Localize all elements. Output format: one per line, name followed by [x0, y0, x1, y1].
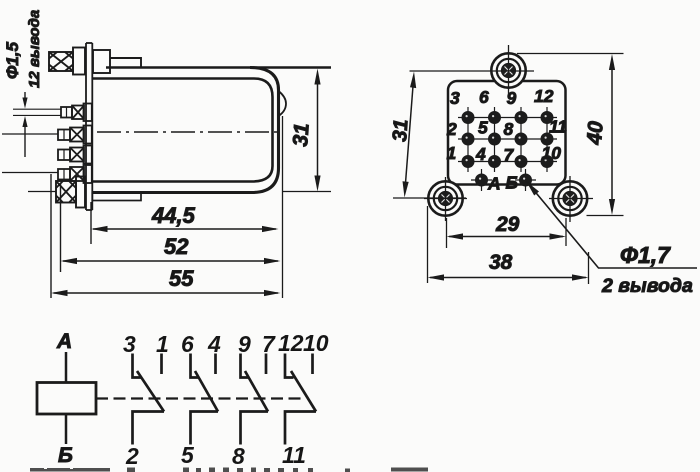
dimension 31 (left view, right side)	[283, 69, 331, 192]
callout arrow upper	[22, 92, 27, 109]
svg-text:31: 31	[389, 119, 412, 143]
dimension 44,5	[91, 203, 279, 232]
svg-text:6: 6	[479, 87, 489, 107]
extension for 44.5 left	[90, 202, 92, 244]
svg-text:52: 52	[164, 234, 189, 259]
coil	[37, 383, 96, 415]
svg-text:3: 3	[450, 88, 460, 108]
svg-text:2: 2	[125, 443, 139, 469]
dimension 52	[61, 234, 281, 264]
boss center tick marks	[424, 45, 593, 222]
extension for 55 left	[50, 174, 52, 298]
svg-text:6: 6	[181, 331, 194, 357]
svg-text:1: 1	[447, 143, 457, 163]
pin row 1	[61, 104, 92, 122]
relay body outer outline (side view)	[92, 68, 331, 193]
svg-text:9: 9	[507, 88, 517, 108]
coil terminal lead A	[65, 352, 68, 383]
vertical extension line at can rim	[282, 116, 284, 298]
leader line to coil pins	[527, 182, 697, 268]
contact group 4 : terminals 12-10-11	[278, 330, 329, 468]
extension for 52 left	[60, 183, 62, 272]
svg-text:5: 5	[181, 442, 195, 468]
mounting boss bottom-left	[428, 181, 462, 215]
mechanical link dashed line	[96, 397, 303, 399]
svg-text:Ф1,5: Ф1,5	[3, 42, 22, 79]
dimension 55	[51, 266, 281, 296]
relay body inner line (side view)	[92, 79, 273, 182]
cut-off caption remnants at bottom edge	[30, 467, 428, 472]
mounting boss top	[491, 53, 525, 87]
svg-text:9: 9	[238, 331, 251, 357]
dash-dot center axis line	[97, 131, 283, 133]
pin highlights	[466, 115, 547, 180]
svg-text:Ф1,7: Ф1,7	[620, 242, 671, 268]
svg-text:7: 7	[262, 331, 276, 357]
svg-text:29: 29	[495, 213, 520, 236]
contact group 3 : terminals 9-7-8	[232, 331, 276, 469]
svg-text:Б: Б	[506, 173, 518, 193]
pin row 4	[58, 165, 92, 183]
coil terminal lead B	[65, 414, 68, 444]
svg-text:2: 2	[446, 119, 457, 139]
relay body outline (bottom view)	[448, 81, 566, 185]
mounting foot bracket	[92, 193, 141, 201]
seam bump on right edge	[279, 91, 287, 116]
dimension 40 (bottom view, right)	[517, 54, 624, 216]
svg-text:38: 38	[489, 251, 513, 274]
svg-text:А: А	[487, 174, 501, 194]
pin row 3	[58, 146, 92, 164]
body bottom edge left part	[92, 191, 252, 194]
dimension 38	[428, 206, 589, 284]
svg-text:10: 10	[303, 330, 329, 356]
axis line of pin row 4	[2, 172, 58, 174]
svg-text:40: 40	[583, 120, 608, 146]
svg-text:А: А	[56, 330, 72, 353]
leader arrowhead at pin B	[526, 181, 539, 196]
svg-text:4: 4	[207, 331, 221, 357]
svg-text:8: 8	[504, 119, 514, 139]
center axis extension to image edge (row2)	[2, 133, 58, 135]
contact group 1 : terminals 3-1-2	[123, 331, 169, 469]
top threaded stud	[49, 48, 141, 75]
pin field grid lines	[458, 107, 557, 191]
dimension 29	[447, 213, 567, 248]
svg-text:Б: Б	[58, 444, 73, 467]
svg-text:11: 11	[549, 117, 567, 137]
svg-text:12: 12	[278, 330, 304, 356]
svg-text:4: 4	[475, 144, 486, 164]
svg-text:1: 1	[156, 331, 169, 357]
svg-text:55: 55	[169, 266, 194, 291]
callout arrow lower	[22, 116, 27, 157]
svg-text:3: 3	[123, 331, 136, 357]
svg-text:5: 5	[478, 118, 488, 138]
bottom threaded stud	[28, 177, 85, 208]
pin row 2	[58, 126, 92, 144]
contact pins (12) bottom view	[463, 112, 552, 166]
mounting boss bottom-right	[553, 181, 587, 215]
svg-text:10: 10	[542, 143, 562, 163]
mounting flange plate (vertical band)	[86, 43, 92, 210]
svg-text:2 вывода: 2 вывода	[601, 275, 693, 297]
svg-text:12: 12	[534, 86, 554, 106]
svg-text:8: 8	[232, 443, 245, 469]
svg-text:31: 31	[289, 122, 314, 147]
contact group 2 : terminals 6-4-5	[181, 331, 221, 468]
svg-text:12 вывода: 12 вывода	[26, 10, 43, 88]
coil pins A and B bottom view	[476, 175, 530, 185]
pin diameter callout lines (d=1.5)	[13, 108, 61, 110]
svg-text:44,5: 44,5	[151, 203, 196, 228]
svg-text:7: 7	[504, 145, 515, 165]
pin number labels bottom view	[446, 86, 567, 194]
dimension 31 (bottom view, left)	[389, 71, 534, 198]
svg-text:11: 11	[282, 442, 306, 468]
